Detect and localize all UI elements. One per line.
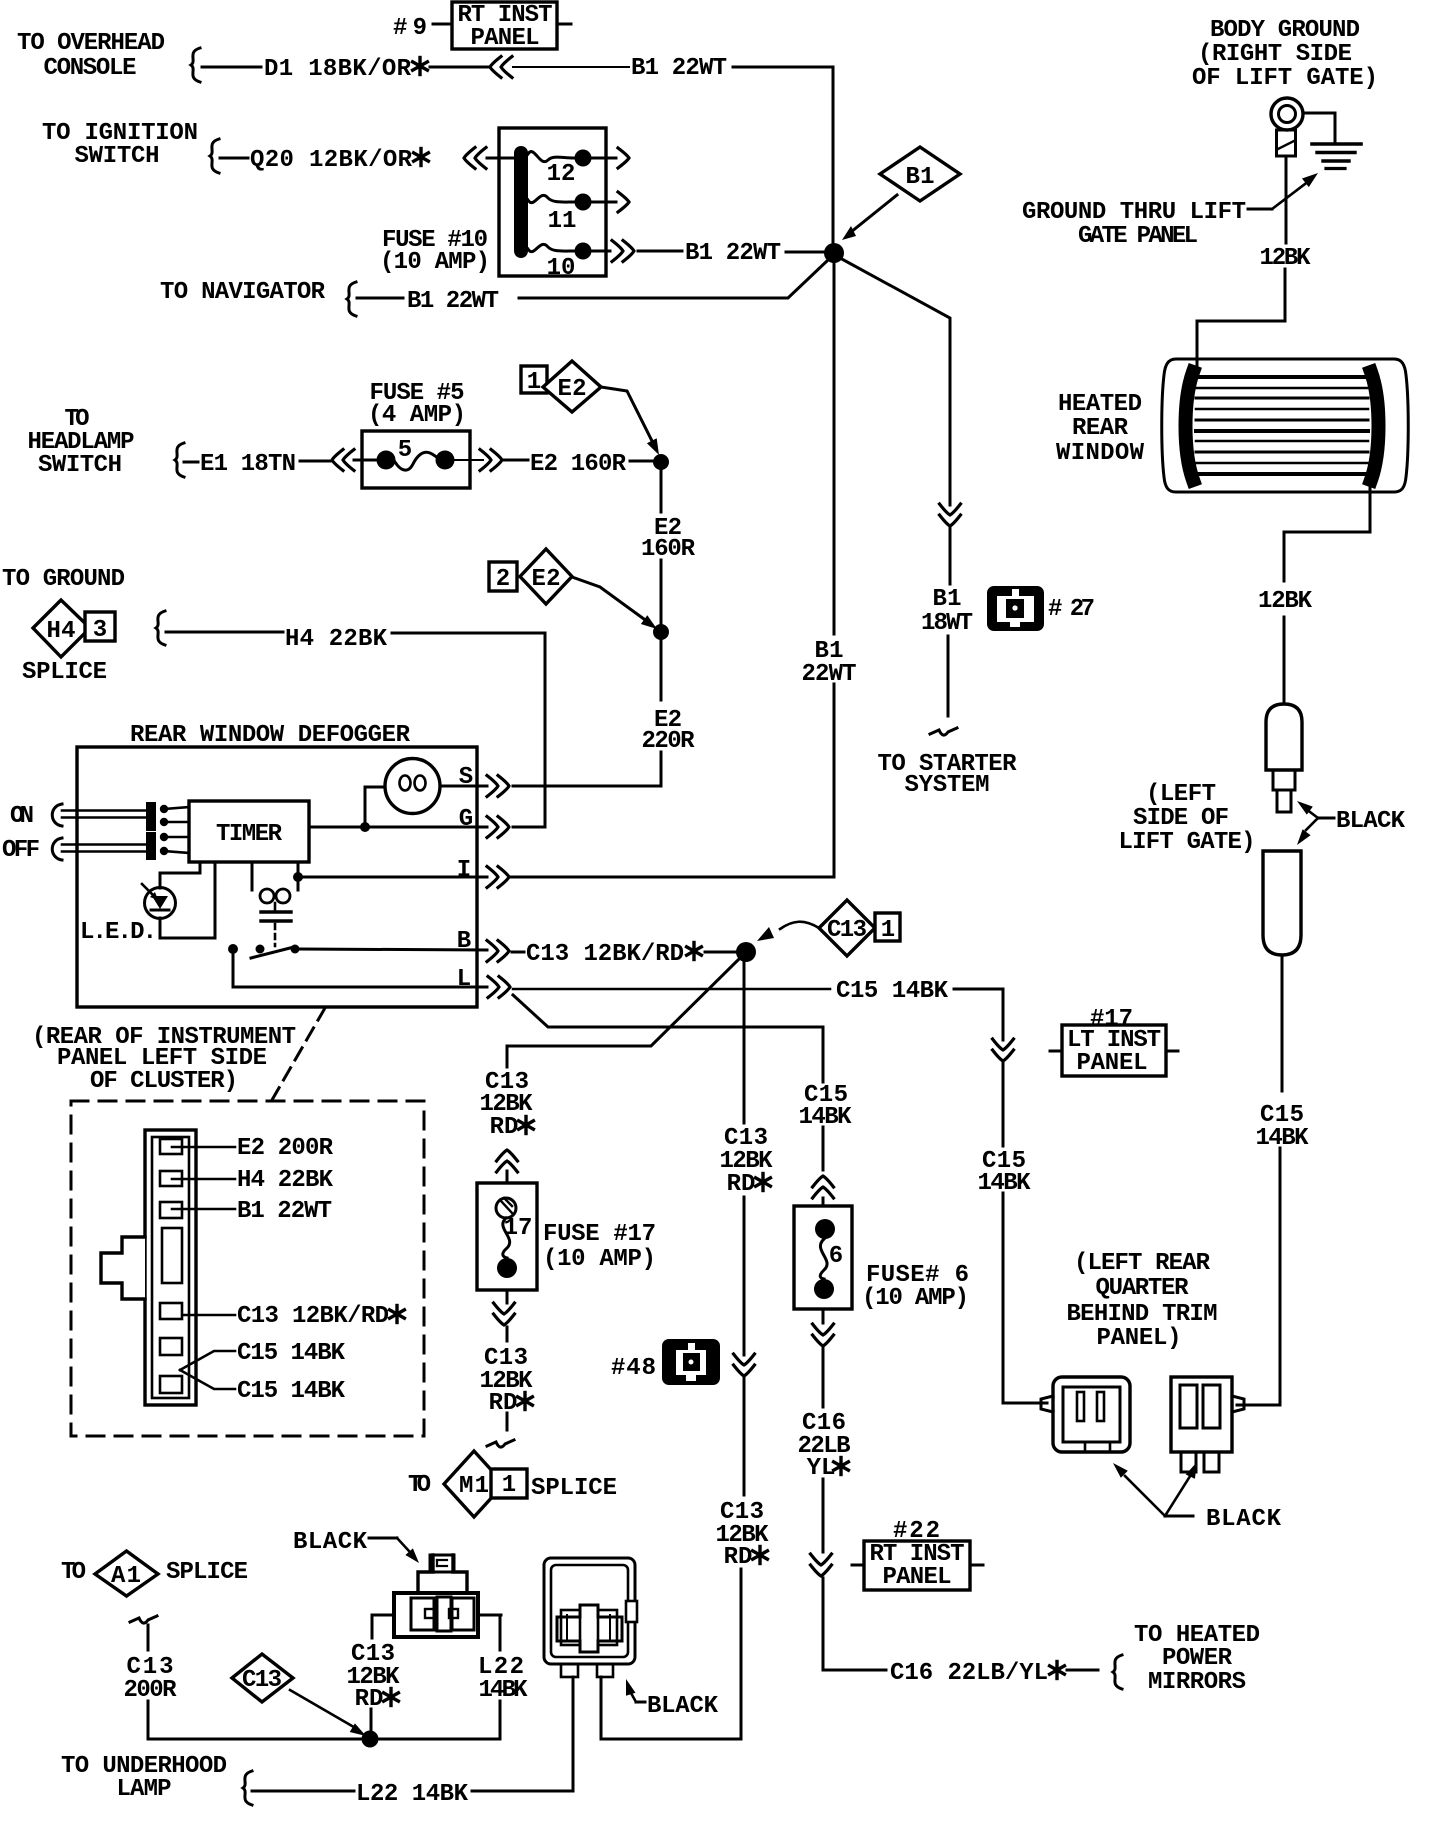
svg-text:(4 AMP): (4 AMP) (368, 402, 466, 429)
svg-text:SYSTEM: SYSTEM (905, 772, 990, 799)
svg-text:YL: YL (807, 1455, 836, 1482)
svg-text:SIDE OF: SIDE OF (1133, 805, 1229, 832)
svg-text:RD: RD (727, 1171, 756, 1198)
svg-text:TO OVERHEAD: TO OVERHEAD (17, 30, 165, 57)
svg-text:SPLICE: SPLICE (22, 659, 107, 686)
svg-text:B1: B1 (933, 586, 962, 613)
svg-text:E2 200R: E2 200R (237, 1135, 334, 1162)
svg-text:ON: ON (10, 803, 34, 830)
svg-text:5: 5 (398, 437, 412, 464)
svg-text:CONSOLE: CONSOLE (44, 55, 137, 82)
svg-text:1: 1 (527, 369, 541, 396)
svg-text:22WT: 22WT (802, 661, 857, 688)
svg-text:14BK: 14BK (1256, 1125, 1310, 1152)
svg-text:L.E.D.: L.E.D. (80, 919, 157, 946)
svg-text:C15 14BK: C15 14BK (237, 1340, 346, 1367)
svg-text:(RIGHT SIDE: (RIGHT SIDE (1198, 41, 1352, 68)
svg-text:12BK: 12BK (1258, 588, 1313, 615)
svg-text:B: B (457, 928, 471, 955)
svg-text:C13: C13 (827, 917, 867, 944)
svg-text:OF LIFT GATE): OF LIFT GATE) (1192, 65, 1378, 92)
svg-text:12: 12 (547, 161, 576, 188)
svg-text:11: 11 (548, 208, 577, 235)
svg-text:C13 12BK/RD: C13 12BK/RD (526, 941, 684, 968)
svg-text:PANEL): PANEL) (1097, 1325, 1182, 1352)
svg-text:SPLICE: SPLICE (531, 1475, 617, 1502)
svg-text:BLACK: BLACK (647, 1693, 719, 1720)
svg-text:GROUND THRU LIFT: GROUND THRU LIFT (1022, 199, 1246, 226)
svg-text:RD: RD (355, 1686, 384, 1713)
svg-text:BEHIND TRIM: BEHIND TRIM (1067, 1301, 1218, 1328)
svg-text:E2: E2 (532, 566, 561, 593)
svg-text:HEATED: HEATED (1058, 391, 1142, 418)
svg-text:RD: RD (489, 1390, 518, 1417)
svg-text:6: 6 (829, 1243, 843, 1270)
svg-text:MIRRORS: MIRRORS (1148, 1669, 1246, 1696)
svg-text:B1 22WT: B1 22WT (631, 55, 727, 82)
svg-text:200R: 200R (124, 1677, 178, 1704)
svg-text:3: 3 (93, 617, 107, 644)
svg-text:SWITCH: SWITCH (38, 452, 122, 479)
svg-text:TO: TO (408, 1472, 431, 1499)
svg-text:OF CLUSTER): OF CLUSTER) (90, 1068, 238, 1095)
svg-text:C13: C13 (242, 1667, 282, 1694)
svg-text:LAMP: LAMP (117, 1776, 172, 1803)
svg-text:C15 14BK: C15 14BK (237, 1378, 346, 1405)
svg-text:(10 AMP): (10 AMP) (543, 1246, 656, 1273)
svg-text:2: 2 (496, 566, 510, 593)
svg-text:REAR WINDOW DEFOGGER: REAR WINDOW DEFOGGER (130, 722, 411, 749)
svg-text:H4 22BK: H4 22BK (237, 1167, 334, 1194)
svg-text:I: I (457, 857, 471, 884)
svg-text:H4 22BK: H4 22BK (285, 626, 388, 653)
svg-text:Q20 12BK/OR: Q20 12BK/OR (250, 147, 413, 174)
svg-text:LIFT GATE): LIFT GATE) (1119, 829, 1256, 856)
svg-text:BLACK: BLACK (1336, 808, 1406, 835)
svg-text:(10 AMP): (10 AMP) (380, 249, 490, 276)
svg-text:(LEFT REAR: (LEFT REAR (1074, 1250, 1211, 1277)
svg-text:RD: RD (724, 1544, 753, 1571)
svg-text:# 27: # 27 (1048, 596, 1095, 623)
svg-text:B1: B1 (906, 164, 935, 191)
svg-text:(10 AMP): (10 AMP) (862, 1285, 969, 1312)
svg-text:TO GROUND: TO GROUND (2, 566, 125, 593)
svg-text:E2: E2 (558, 376, 587, 403)
svg-text:14BK: 14BK (479, 1677, 529, 1704)
svg-text:C16 22LB/YL: C16 22LB/YL (890, 1660, 1048, 1687)
svg-text:SPLICE: SPLICE (166, 1559, 248, 1586)
svg-text:TO NAVIGATOR: TO NAVIGATOR (160, 279, 326, 306)
svg-text:SWITCH: SWITCH (75, 143, 160, 170)
svg-text:160R: 160R (641, 536, 696, 563)
svg-text:BLACK: BLACK (293, 1529, 368, 1556)
svg-text:PANEL: PANEL (471, 25, 540, 52)
svg-text:A1: A1 (111, 1563, 141, 1590)
svg-text:L: L (457, 966, 471, 993)
svg-text:C13 12BK/RD: C13 12BK/RD (237, 1303, 389, 1330)
svg-text:WINDOW: WINDOW (1056, 440, 1145, 467)
svg-text:S: S (459, 764, 473, 791)
svg-text:PANEL: PANEL (883, 1564, 952, 1591)
svg-text:PANEL: PANEL (1077, 1050, 1148, 1077)
svg-text:E1 18TN: E1 18TN (200, 451, 296, 478)
svg-text:M1: M1 (459, 1473, 489, 1500)
svg-text:B1 22WT: B1 22WT (685, 240, 781, 267)
svg-text:BODY GROUND: BODY GROUND (1210, 17, 1360, 44)
svg-text:RD: RD (490, 1114, 519, 1141)
svg-text:1: 1 (502, 1472, 516, 1499)
svg-text:GATE PANEL: GATE PANEL (1078, 223, 1198, 250)
svg-text:L22 14BK: L22 14BK (356, 1781, 469, 1808)
svg-text:1: 1 (881, 917, 895, 944)
svg-text:E2 160R: E2 160R (530, 451, 627, 478)
svg-text:BLACK: BLACK (1206, 1506, 1282, 1533)
svg-text:POWER: POWER (1162, 1645, 1233, 1672)
svg-text:H4: H4 (47, 618, 76, 645)
svg-text:QUARTER: QUARTER (1096, 1275, 1190, 1302)
svg-text:OFF: OFF (2, 837, 40, 864)
svg-text:G: G (459, 806, 473, 833)
svg-text:# 9: # 9 (393, 15, 427, 42)
svg-text:220R: 220R (642, 728, 696, 755)
svg-text:REAR: REAR (1072, 415, 1129, 442)
svg-text:C15 14BK: C15 14BK (836, 978, 949, 1005)
svg-text:FUSE #17: FUSE #17 (543, 1221, 656, 1248)
svg-text:18WT: 18WT (921, 610, 973, 637)
svg-text:B1 22WT: B1 22WT (237, 1198, 332, 1225)
svg-text:B1 22WT: B1 22WT (407, 288, 499, 315)
svg-text:#48: #48 (611, 1355, 656, 1382)
svg-text:TIMER: TIMER (216, 821, 283, 848)
svg-text:(LEFT: (LEFT (1146, 781, 1216, 808)
svg-text:TO: TO (61, 1559, 86, 1586)
svg-text:D1 18BK/OR: D1 18BK/OR (264, 56, 412, 83)
svg-text:14BK: 14BK (799, 1104, 853, 1131)
svg-text:10: 10 (547, 255, 576, 282)
